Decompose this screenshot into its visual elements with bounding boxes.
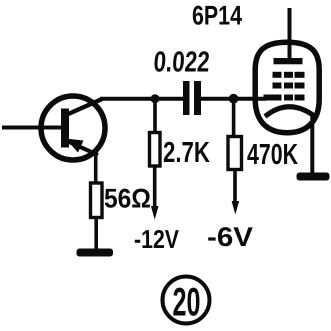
svg-text:20: 20 (173, 281, 201, 325)
resistor R3 56ohm (91, 183, 103, 218)
resistor R1 2.7K (150, 133, 161, 167)
tube grid g1 (bottom row, control grid with lead) (264, 95, 305, 101)
svg-text:56Ω: 56Ω (104, 184, 151, 214)
svg-text:470K: 470K (247, 139, 298, 171)
ground (right) (297, 173, 330, 181)
wire: anode lead up (288, 8, 292, 60)
resistor R2 470K (228, 137, 242, 170)
wire: R1 to -12V arrow (153, 166, 157, 209)
node A: junction wire/2.7K (151, 94, 160, 103)
wire: R3 to ground (94, 218, 98, 252)
wire: node B down to R2 (232, 99, 236, 138)
capacitor C1 (183, 81, 201, 115)
wire: cathode to ground (310, 115, 314, 174)
arrow: -6V supply (232, 201, 240, 215)
wire: collector to capacitor left plate (100, 97, 184, 101)
tube grid g3 (top row) (273, 72, 305, 78)
tube grid g2 (middle row) (273, 83, 305, 89)
svg-text:-6V: -6V (207, 222, 253, 252)
wire: node A down to R1 (153, 99, 157, 134)
transistor Q1 (PNP) (41, 96, 105, 160)
svg-text:2.7K: 2.7K (163, 137, 210, 169)
wire: input to base (2, 126, 66, 130)
figure number circle 20 (163, 277, 210, 324)
svg-text:-12V: -12V (134, 224, 180, 254)
wire: capacitor right plate to tube grid (200, 97, 266, 101)
svg-text:6P14: 6P14 (192, 1, 242, 31)
wire: emitter down to R3 (94, 153, 98, 184)
arrow: -12V supply (151, 206, 159, 220)
node B: junction wire/470K (229, 94, 239, 104)
wire: R2 to -6V arrow (233, 170, 237, 205)
svg-text:0.022: 0.022 (152, 47, 210, 79)
tube U1 6P14 envelope (255, 42, 319, 133)
tube cathode arc (265, 107, 315, 117)
tube anode plate (274, 58, 303, 64)
ground (left) (77, 249, 114, 257)
